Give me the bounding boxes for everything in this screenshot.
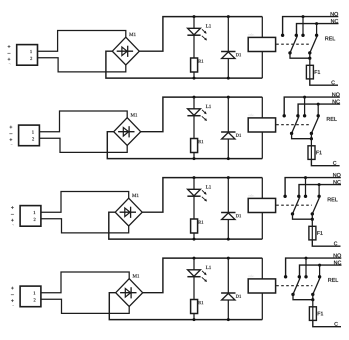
node bottom rail / R1 (193, 238, 196, 241)
wire top rail to diode D1 (227, 258, 229, 293)
wire top rail to LED L1 (193, 17, 195, 29)
node top rail / LED branch (193, 257, 196, 260)
LED L1 (188, 28, 201, 35)
label L1 (206, 266, 211, 269)
wire top rail to LED L1 (193, 258, 195, 270)
wire top rail to relay coil (261, 258, 263, 279)
wire relay coil to bottom rail (261, 132, 263, 159)
LED emission arrows (202, 110, 206, 114)
LED L1 (188, 189, 201, 196)
node bottom rail / R1 (193, 157, 196, 160)
contact arm pole 2 (310, 36, 317, 53)
wire relay coil to bottom rail (261, 52, 263, 79)
label REL (325, 37, 335, 41)
wire NO bus (285, 178, 341, 196)
wire NC bus (297, 24, 339, 35)
wire top rail to diode D1 (227, 17, 229, 52)
wire NO bus to contact 3 (305, 178, 307, 197)
wire fuse to C terminal (311, 159, 339, 165)
contact arm pole 1 (290, 36, 297, 53)
label input 4 polarity marks (11, 287, 14, 290)
wire bridge DC+ to top rail (141, 97, 263, 132)
wire top rail to relay coil (261, 17, 263, 38)
contact arm pole 2 (313, 277, 320, 294)
wire pole bus to fuse (311, 219, 313, 226)
bridge internal diode (118, 131, 134, 133)
label NO (332, 93, 339, 97)
wire NC bus to contact 4 (317, 104, 319, 116)
fuse F1 (309, 65, 311, 79)
wire LED to resistor R1 (193, 35, 195, 58)
connector J4 pins 1-2 (20, 286, 41, 307)
node NC bus tap (315, 22, 318, 25)
bridge internal diode (117, 50, 133, 52)
wire bridge DC+ to top rail (143, 258, 263, 293)
resistor R1 (191, 58, 198, 72)
wire R1 to bottom rail (193, 153, 195, 159)
node NC bus tap (318, 183, 321, 186)
resistor R1 (191, 219, 198, 233)
LED emission arrows (202, 190, 206, 194)
wire top rail to relay coil (261, 178, 263, 199)
wire D1 to bottom rail (227, 300, 229, 320)
wire top rail to relay coil (261, 97, 263, 118)
node bottom rail / R1 (193, 318, 196, 321)
label NC (334, 180, 341, 184)
relay coil K3 (248, 198, 275, 212)
wire top rail to LED L1 (193, 178, 195, 190)
label NO (334, 254, 341, 258)
wire NC bus (299, 185, 341, 196)
wire pin1 to bridge AC top (39, 111, 127, 132)
connector J2 pins 1-2 (19, 125, 40, 146)
relay actuator dashed link (276, 285, 312, 287)
contact arm pole 1 (292, 116, 299, 133)
label REL (328, 278, 338, 282)
node bottom rail / D1 (227, 77, 230, 80)
diode D1 (222, 52, 235, 59)
label L1 (206, 24, 211, 27)
node top rail / D1 branch (227, 96, 230, 99)
node top rail / D1 branch (227, 15, 230, 18)
label M1 (133, 274, 140, 277)
diode D1 (222, 293, 235, 300)
diode D1 (222, 132, 235, 139)
node NO bus tap (305, 257, 308, 260)
label NC (331, 19, 338, 23)
resistor R1 (191, 139, 198, 153)
LED emission arrows (202, 29, 206, 33)
contact fixed terminals (283, 114, 286, 117)
relay actuator dashed link (276, 204, 312, 206)
wire pole bus (293, 214, 313, 219)
wire D1 to bottom rail (227, 59, 229, 79)
relay actuator dashed link (276, 43, 309, 45)
wire LED to resistor R1 (193, 277, 195, 300)
wire pole bus (293, 294, 313, 299)
label C (333, 161, 336, 165)
wire NC bus to contact 4 (319, 265, 321, 277)
wire fuse to C terminal (310, 79, 338, 85)
bridge rectifier M1 (row 1) (112, 37, 139, 65)
wire NO bus to contact 3 (302, 17, 304, 36)
label C (334, 242, 337, 246)
wire bridge DC+ to top rail (142, 178, 262, 213)
label input 1 polarity marks (8, 45, 11, 48)
wire pole bus (290, 53, 310, 58)
connector J3 pins 1-2 (20, 206, 41, 227)
wire bridge DC- to bottom rail (107, 132, 262, 159)
wire R1 to bottom rail (193, 314, 195, 320)
wire pin2 to bridge AC bottom (38, 58, 126, 72)
wire pole bus to fuse (310, 139, 312, 146)
contact arm pole 2 (311, 116, 318, 133)
label C (334, 322, 337, 326)
bridge internal diode (120, 292, 136, 294)
wire pin1 to bridge AC top (41, 192, 129, 213)
wire LED to resistor R1 (193, 196, 195, 219)
node pole bus / fuse (311, 218, 314, 221)
label NO (333, 173, 340, 177)
wire NC bus (300, 265, 342, 276)
node top rail / D1 branch (227, 257, 230, 260)
label REL (327, 117, 337, 121)
wire pin2 to bridge AC bottom (41, 219, 129, 233)
node bottom rail / R1 (193, 77, 196, 80)
LED L1 (188, 109, 201, 116)
node top rail / LED branch (193, 176, 196, 179)
label F1 (316, 151, 321, 155)
label M1 (131, 113, 138, 116)
wire D1 to bottom rail (227, 139, 229, 159)
wire bridge DC+ to top rail (139, 17, 262, 52)
wire LED to resistor R1 (193, 116, 195, 139)
node pole bus / fuse (308, 57, 311, 60)
label R1 (198, 140, 203, 143)
diode D1 cathode bar (221, 51, 235, 53)
label NC (333, 100, 340, 104)
contact fixed terminals (283, 195, 286, 198)
label REL (328, 198, 338, 202)
wire pole bus to fuse (312, 300, 314, 307)
diode D1 cathode bar (221, 212, 235, 214)
wire NO bus to contact 3 (305, 258, 307, 277)
fuse F1 (310, 146, 312, 160)
contact fixed terminals (281, 34, 284, 37)
node NO bus tap (303, 96, 306, 99)
label C (331, 81, 334, 85)
label D1 (236, 53, 241, 56)
wire top rail to LED L1 (193, 97, 195, 109)
node NO bus tap (304, 176, 307, 179)
wire R1 to bottom rail (193, 72, 195, 78)
wire NO bus (283, 17, 339, 35)
fuse F1 (311, 226, 313, 240)
label D1 (236, 214, 241, 217)
wire NC bus to contact 4 (318, 185, 320, 197)
wire NC bus (298, 104, 340, 115)
node NC bus tap (318, 264, 321, 267)
wire fuse to C terminal (313, 320, 341, 326)
label F1 (315, 70, 320, 74)
node NC bus tap (317, 103, 320, 106)
node bottom rail / D1 (227, 157, 230, 160)
wire pin1 to bridge AC top (41, 272, 129, 293)
contact arm pole 2 (312, 197, 319, 214)
label M1 (129, 33, 136, 36)
node bottom rail / D1 (227, 238, 230, 241)
wire NO bus to contact 3 (304, 97, 306, 116)
wire bridge DC- to bottom rail (106, 51, 262, 78)
wire NO bus (286, 258, 342, 276)
LED emission arrows (202, 271, 206, 275)
wire NC bus to contact 4 (316, 24, 318, 36)
wire relay coil to bottom rail (261, 213, 263, 240)
wire pin1 to bridge AC top (38, 31, 126, 52)
relay actuator dashed link (276, 124, 311, 126)
node bottom rail / D1 (227, 318, 230, 321)
bridge rectifier M1 (row 3) (115, 198, 142, 226)
label F1 (317, 231, 322, 235)
node pole bus / fuse (310, 137, 313, 140)
label NO (331, 12, 338, 16)
wire top rail to diode D1 (227, 97, 229, 132)
relay coil K4 (248, 279, 275, 293)
bridge rectifier M1 (row 4) (116, 279, 143, 307)
label F1 (318, 312, 323, 316)
label NC (334, 261, 341, 265)
node top rail / LED branch (193, 15, 196, 18)
label input 2 polarity marks (10, 126, 13, 129)
wire fuse to C terminal (312, 240, 340, 246)
wire bridge DC- to bottom rail (109, 293, 262, 320)
connector J1 pins 1-2 (17, 45, 38, 66)
wire pin2 to bridge AC bottom (41, 299, 129, 313)
wire D1 to bottom rail (227, 220, 229, 240)
node NO bus tap (302, 15, 305, 18)
label R1 (198, 60, 203, 63)
relay coil K2 (248, 118, 275, 132)
diode D1 cathode bar (221, 292, 235, 294)
contact fixed terminals (284, 275, 287, 278)
wire pole bus to fuse (309, 58, 311, 65)
label L1 (206, 105, 211, 108)
bridge rectifier M1 (row 2) (114, 118, 141, 146)
node top rail / D1 branch (227, 176, 230, 179)
wire bridge DC- to bottom rail (109, 212, 262, 239)
relay coil K1 (248, 37, 275, 51)
label D1 (236, 134, 241, 137)
bridge internal diode (120, 211, 136, 213)
contact arm pole 1 (293, 197, 300, 214)
diode D1 cathode bar (221, 131, 235, 133)
label R1 (198, 301, 203, 304)
wire top rail to diode D1 (227, 178, 229, 213)
LED L1 (188, 270, 201, 277)
node pole bus / fuse (311, 298, 314, 301)
fuse F1 (312, 307, 314, 321)
node top rail / LED branch (193, 96, 196, 99)
contact arm pole 1 (293, 277, 300, 294)
label D1 (236, 295, 241, 298)
wire R1 to bottom rail (193, 233, 195, 239)
resistor R1 (191, 300, 198, 314)
wire pole bus (292, 133, 312, 138)
diode D1 (222, 213, 235, 220)
wire relay coil to bottom rail (261, 293, 263, 320)
label L1 (206, 185, 211, 188)
label input 3 polarity marks (11, 206, 14, 209)
wire NO bus (284, 97, 340, 115)
label M1 (132, 194, 139, 197)
label R1 (198, 221, 203, 224)
wire pin2 to bridge AC bottom (39, 138, 127, 152)
